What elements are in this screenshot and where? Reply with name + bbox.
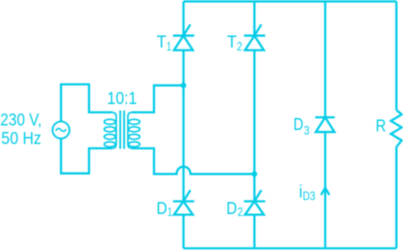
node A junction dot [181, 83, 187, 89]
wire T1 anode from top bus [182, 1, 184, 35]
thyristor T1 [173, 24, 194, 50]
label source voltage [0, 110, 41, 148]
svg-text:230 V,: 230 V, [0, 110, 41, 130]
svg-text:T: T [227, 32, 237, 52]
wire secondary bottom to node B with hop [132, 148, 254, 174]
svg-text:1: 1 [167, 41, 172, 53]
wire R bottom [395, 147, 397, 248]
svg-text:D: D [293, 114, 303, 134]
node B junction dot [252, 171, 258, 177]
wire top bus [184, 0, 397, 2]
wire T2 anode from top bus [253, 1, 255, 35]
wire D1 bottom [182, 215, 184, 249]
transformer core [120, 111, 124, 149]
transformer primary winding [104, 112, 116, 148]
wire T1 cathode to D1 [182, 50, 184, 201]
transformer secondary winding [128, 112, 140, 148]
label D1 [157, 198, 173, 219]
ac source circle [53, 122, 70, 139]
svg-text:D: D [226, 198, 237, 218]
svg-text:10:1: 10:1 [107, 88, 137, 108]
svg-text:1: 1 [168, 207, 173, 219]
wire T2 cathode to D2 [253, 50, 255, 201]
label D3 [293, 114, 309, 138]
svg-text:2: 2 [238, 207, 243, 219]
svg-text:D: D [157, 198, 168, 218]
svg-text:3: 3 [304, 125, 310, 137]
wire D2 bottom [253, 215, 255, 249]
diode D3 [315, 117, 335, 132]
current arrow iD3 [321, 188, 329, 195]
svg-text:R: R [376, 116, 386, 136]
ac source sine [56, 128, 66, 131]
svg-text:50 Hz: 50 Hz [1, 128, 41, 148]
thyristor T2 [244, 24, 265, 50]
wire D3 branch top [324, 1, 326, 117]
svg-text:T: T [157, 32, 167, 52]
wire bottom bus [184, 247, 397, 249]
wire source bottom to primary [61, 139, 112, 174]
label iD3 [299, 182, 315, 204]
svg-text:2: 2 [237, 41, 242, 53]
wire R branch top [395, 1, 397, 110]
resistor R [391, 110, 402, 147]
svg-text:D3: D3 [303, 191, 316, 203]
thyristor D1 [173, 190, 194, 215]
wire source top to primary [61, 84, 112, 121]
label T2 [227, 32, 242, 54]
thyristor D2 [244, 190, 265, 215]
wire D3 bottom [324, 132, 326, 248]
wire secondary top to node A [132, 85, 184, 112]
label D2 [226, 198, 243, 219]
label T1 [157, 32, 172, 54]
